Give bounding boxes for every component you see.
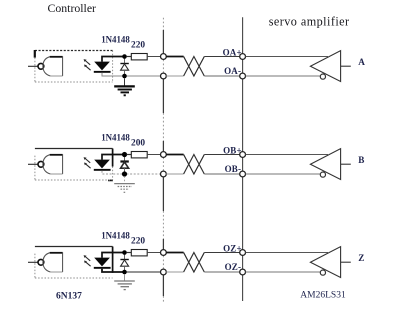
- connector pin circle OB- amplifier side: [240, 171, 246, 177]
- wire bottom node to connector channel Z: [127, 271, 161, 273]
- connector pin circle OA- controller side: [161, 73, 167, 79]
- ground channel B: [114, 176, 135, 192]
- connector pin circle OA- amplifier side: [240, 73, 246, 79]
- node junction dot bottom channel Z: [122, 270, 127, 275]
- svg-text:OA+: OA+: [223, 47, 242, 57]
- line driver AM26LS31 triangle channel Z: [310, 247, 350, 278]
- svg-text:6N137: 6N137: [56, 291, 82, 301]
- node junction dot top channel Z: [122, 250, 127, 255]
- opto LED channel B: [94, 160, 111, 171]
- svg-text:OZ-: OZ-: [225, 262, 242, 272]
- svg-text:OZ+: OZ+: [223, 243, 242, 253]
- connector pin circle OA+ controller side: [161, 54, 167, 60]
- svg-text:200: 200: [131, 138, 145, 148]
- svg-text:1N4148: 1N4148: [101, 34, 130, 44]
- twisted pair wires channel Z: [166, 253, 204, 273]
- wire OA- to servo amplifier: [204, 75, 242, 77]
- node junction dot bottom channel A: [122, 74, 127, 79]
- svg-text:1N4148: 1N4148: [101, 132, 130, 142]
- gate output bubble channel Z: [38, 259, 44, 265]
- wire LED anode to node channel B: [102, 155, 125, 160]
- wire OB- to servo amplifier: [204, 173, 242, 175]
- wire OA+ into driver channel A: [246, 56, 329, 58]
- wire OB+ into driver channel B: [246, 154, 329, 156]
- connector pin circle OZ- amplifier side: [240, 269, 246, 275]
- wire OZ+ to servo amplifier: [204, 252, 242, 254]
- driver inverting bubble channel A: [320, 74, 325, 79]
- connector pin circle OB+ controller side: [161, 152, 167, 158]
- driver inverting bubble channel B: [320, 172, 325, 177]
- connector pin circle OZ+ amplifier side: [240, 250, 246, 256]
- optocoupler light arrows channel B: [84, 157, 91, 168]
- connector pin circle OA+ amplifier side: [240, 54, 246, 60]
- svg-text:A: A: [358, 57, 365, 67]
- wire OZ+ into driver channel Z: [246, 252, 329, 254]
- wire OZ- to servo amplifier: [204, 271, 242, 273]
- line driver AM26LS31 triangle channel B: [310, 149, 350, 180]
- resistor 220 channel A: [127, 54, 161, 60]
- svg-text:Controller: Controller: [48, 1, 97, 15]
- servo-amplifier-side boundary line: [242, 17, 244, 301]
- optocoupler light arrows channel Z: [84, 255, 91, 266]
- connector pin circle OZ- controller side: [161, 269, 167, 275]
- opto output gate channel A: [43, 56, 63, 76]
- resistor 200 channel B: [127, 152, 161, 158]
- svg-text:220: 220: [131, 236, 145, 246]
- controller-side boundary chain line: [162, 18, 164, 302]
- wire LED anode to node channel A: [102, 57, 125, 62]
- wire OA+ to servo amplifier: [204, 56, 242, 58]
- opto LED channel Z: [94, 258, 111, 269]
- line driver AM26LS31 triangle channel A: [310, 51, 350, 82]
- optocoupler 6N137 package box channel B: [35, 148, 113, 150]
- twisted pair wires channel A: [166, 57, 204, 77]
- ground channel A: [114, 78, 135, 95]
- gate output bubble channel A: [38, 63, 44, 69]
- svg-text:B: B: [358, 155, 364, 165]
- opto LED channel A: [94, 62, 111, 73]
- svg-text:AM26LS31: AM26LS31: [300, 291, 346, 301]
- diode 1N4148 channel Z: [120, 254, 128, 272]
- svg-text:220: 220: [131, 40, 145, 50]
- driver inverting bubble channel Z: [320, 270, 325, 275]
- wire input stub channel B: [28, 163, 38, 165]
- diode 1N4148 channel A: [120, 58, 128, 76]
- svg-text:1N4148: 1N4148: [101, 230, 130, 240]
- wire bottom node to connector channel B: [127, 173, 161, 175]
- optocoupler 6N137 package box channel Z: [35, 246, 113, 248]
- connector pin circle OB+ amplifier side: [240, 152, 246, 158]
- optocoupler 6N137 package box channel A: [35, 50, 113, 52]
- gate output bubble channel B: [38, 161, 44, 167]
- wire LED cathode to node channel B: [102, 171, 125, 174]
- twisted pair wires channel B: [166, 155, 204, 175]
- wire LED anode to node channel Z: [102, 253, 125, 258]
- wire bottom node to connector channel A: [127, 75, 161, 77]
- wire LED cathode to node channel A: [102, 73, 125, 76]
- diode 1N4148 channel B: [120, 156, 128, 174]
- svg-text:Z: Z: [358, 253, 364, 263]
- wire OA- into driver channel A: [246, 75, 321, 77]
- wire OB+ to servo amplifier: [204, 154, 242, 156]
- node junction dot top channel A: [122, 54, 127, 59]
- wire input stub channel Z: [28, 261, 38, 263]
- wire OB- into driver channel B: [246, 173, 321, 175]
- node junction dot top channel B: [122, 152, 127, 157]
- svg-text:OA-: OA-: [224, 66, 241, 76]
- opto output gate channel Z: [43, 252, 63, 272]
- wire input stub channel A: [28, 65, 38, 67]
- svg-text:OB+: OB+: [223, 145, 242, 155]
- svg-text:servo amplifier: servo amplifier: [269, 15, 350, 29]
- resistor 220 channel Z: [127, 250, 161, 256]
- connector pin circle OZ+ controller side: [161, 250, 167, 256]
- optocoupler light arrows channel A: [84, 59, 91, 70]
- svg-text:OB-: OB-: [225, 164, 242, 174]
- node junction dot bottom channel B: [122, 171, 127, 176]
- connector pin circle OB- controller side: [161, 171, 167, 177]
- ground channel Z: [114, 274, 135, 289]
- wire OZ- into driver channel Z: [246, 271, 321, 273]
- wire LED cathode to node channel Z: [102, 269, 125, 272]
- opto output gate channel B: [43, 154, 63, 174]
